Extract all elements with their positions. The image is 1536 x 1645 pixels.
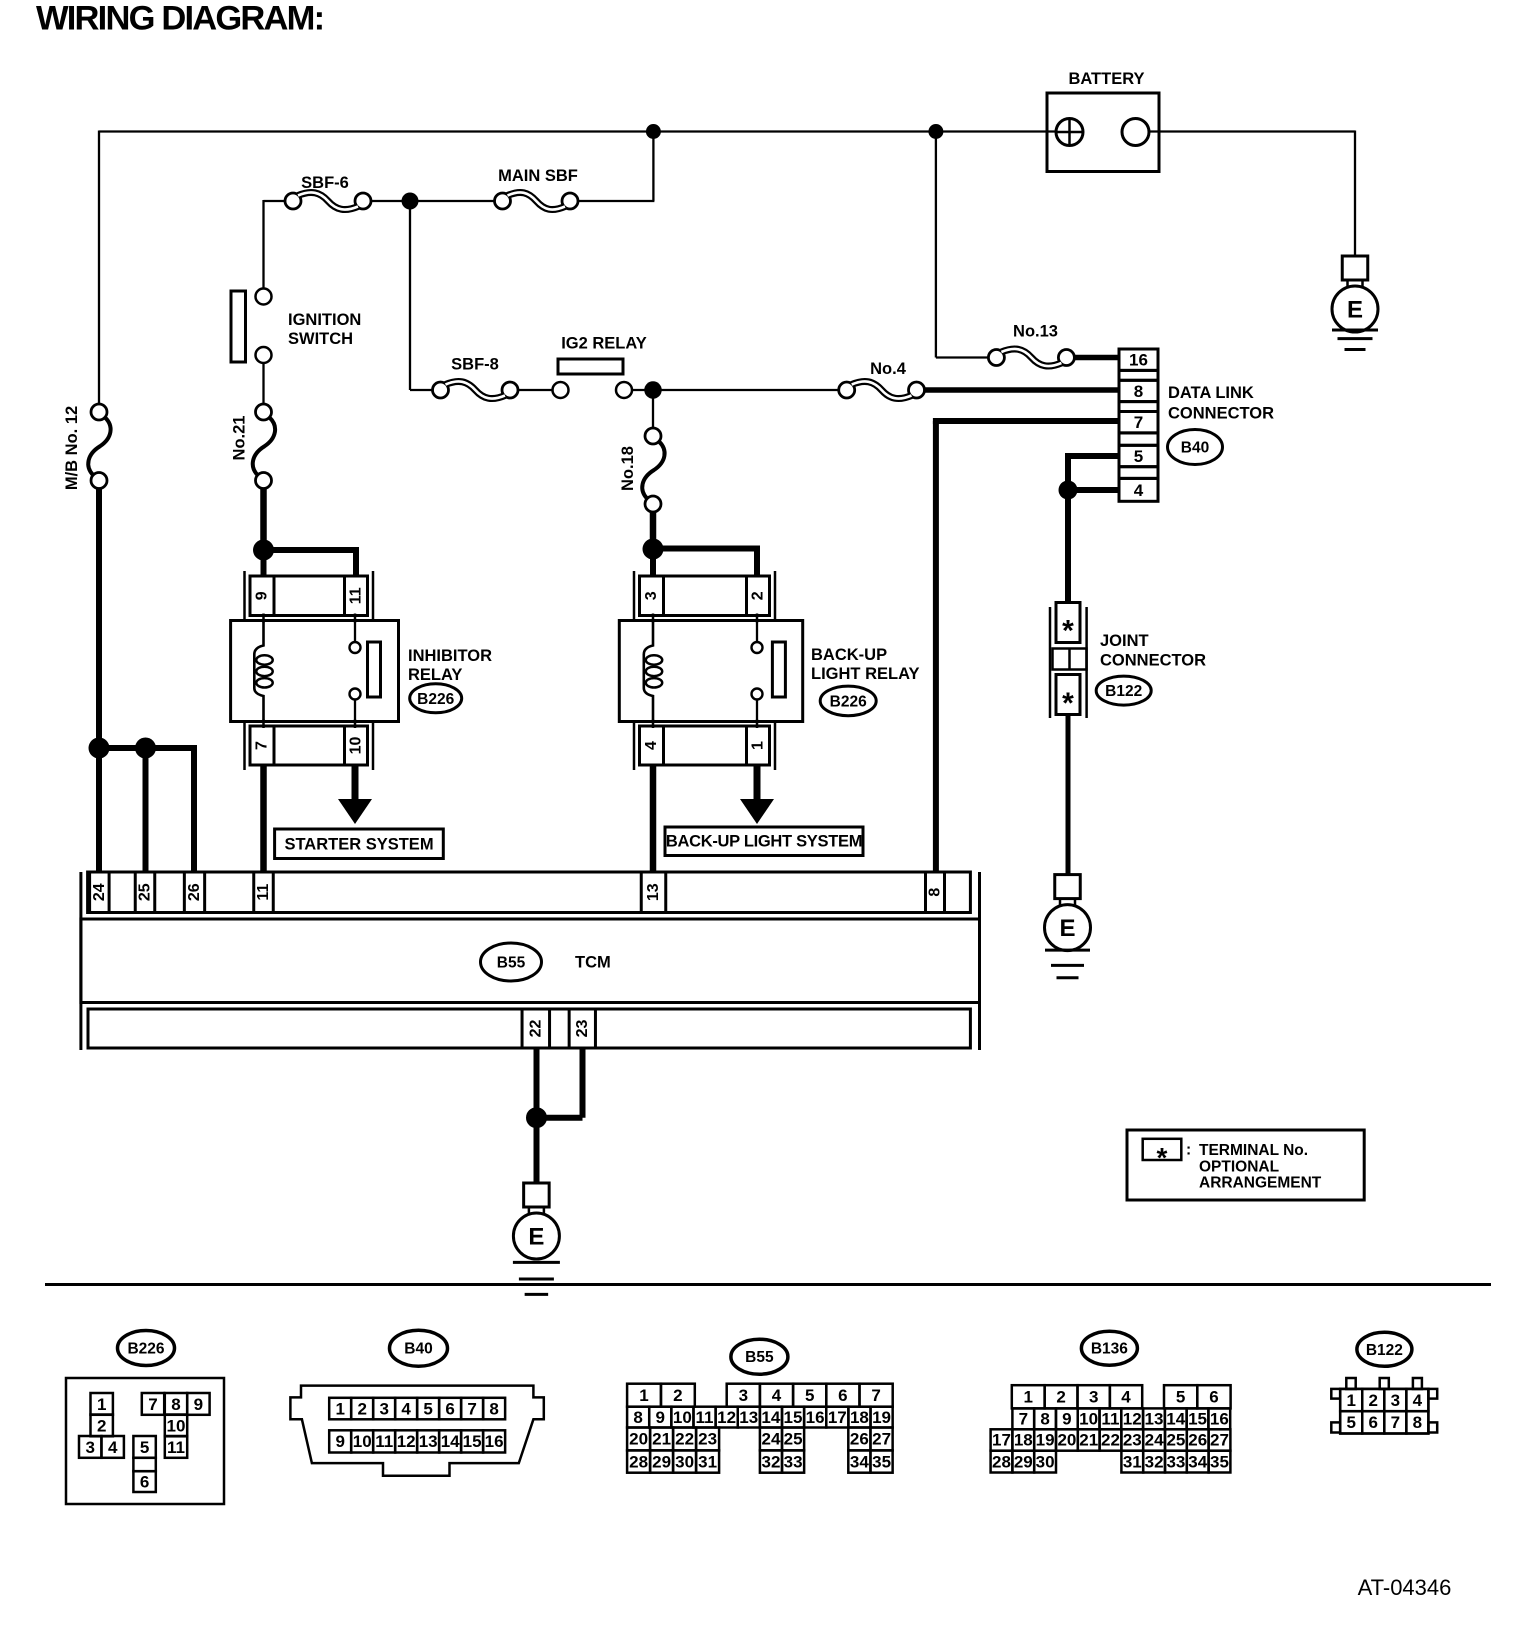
svg-text:SBF-6: SBF-6: [301, 174, 349, 192]
B55 view pin 1: [627, 1384, 661, 1407]
svg-text:35: 35: [872, 1452, 891, 1471]
svg-text:E: E: [1059, 915, 1075, 942]
svg-text:1: 1: [335, 1399, 344, 1418]
B226 view pin 4: [102, 1436, 124, 1458]
svg-text:MAIN SBF: MAIN SBF: [498, 167, 578, 185]
B226 view pin 9: [187, 1393, 209, 1415]
svg-text:13: 13: [645, 883, 662, 901]
svg-text:TERMINAL No.: TERMINAL No.: [1199, 1142, 1308, 1159]
relay contact bar: [368, 642, 381, 697]
svg-text:28: 28: [992, 1452, 1011, 1471]
wire IG2 junction to No.4: [653, 389, 839, 391]
svg-text:30: 30: [675, 1452, 694, 1471]
svg-text:INHIBITOR: INHIBITOR: [408, 647, 492, 665]
svg-text:14: 14: [761, 1408, 780, 1427]
B40 view pin 15: [461, 1430, 483, 1452]
B136 view pin 33: [1165, 1451, 1187, 1473]
B55 view pin 18: [848, 1407, 870, 1428]
svg-text:1: 1: [750, 741, 767, 750]
B55 view pin 11: [693, 1407, 715, 1428]
svg-text:11: 11: [375, 1432, 393, 1451]
ignition switch: [256, 289, 272, 305]
B40 view pin 4: [395, 1398, 417, 1420]
svg-text:32: 32: [1145, 1452, 1164, 1471]
svg-text:10: 10: [167, 1416, 186, 1435]
svg-text:SBF-8: SBF-8: [451, 356, 499, 374]
B226 view pin 6: [133, 1471, 155, 1492]
svg-text:1: 1: [1023, 1388, 1032, 1407]
TCM pin 26: [184, 872, 204, 913]
B226 view pin 11: [165, 1436, 187, 1458]
B40 view pin 1: [329, 1398, 351, 1420]
node junction SBF-6 / SBF-8: [402, 193, 419, 210]
connector ref B40: [1168, 430, 1223, 465]
TCM pin 11: [254, 872, 274, 913]
B136 view pin 29: [1012, 1451, 1034, 1473]
svg-text:7: 7: [148, 1395, 157, 1414]
B136 view pin 19: [1034, 1429, 1056, 1450]
wire No.4 to data link connector pin 8: [925, 387, 1120, 393]
node junction inhibitor coil feed: [253, 540, 274, 561]
relay body BACK-UP: [619, 621, 802, 722]
svg-text:16: 16: [485, 1432, 504, 1451]
svg-text:3: 3: [643, 591, 660, 600]
svg-text:11: 11: [348, 587, 365, 604]
svg-text:E: E: [528, 1224, 544, 1251]
B40 view pin 13: [417, 1430, 439, 1452]
B136 view pin 7: [1012, 1408, 1034, 1429]
wire stubs connector to body: [262, 614, 265, 623]
relay body INHIBITOR: [231, 621, 399, 722]
B40 view pin 6: [439, 1398, 461, 1420]
svg-text:No.13: No.13: [1013, 323, 1058, 341]
wire battery negative to ground: [1149, 130, 1355, 132]
svg-text:8: 8: [1413, 1413, 1422, 1432]
relay coil: [644, 621, 653, 722]
svg-text:19: 19: [872, 1408, 891, 1427]
wire IG2 junction drop to No.18: [652, 390, 654, 428]
B136 view pin 16: [1208, 1408, 1230, 1429]
B136 view pin 1: [1012, 1385, 1045, 1408]
B136 view pin 2: [1045, 1385, 1078, 1408]
svg-text:5: 5: [140, 1438, 149, 1457]
svg-text:13: 13: [739, 1408, 758, 1427]
svg-text:6: 6: [445, 1399, 454, 1418]
wire DLC pin 7 to TCM pin 8: [933, 418, 1119, 424]
B136 view pin 31: [1121, 1451, 1143, 1473]
svg-text:10: 10: [348, 737, 365, 755]
B55 view pin 17: [826, 1407, 848, 1428]
svg-text:4: 4: [401, 1399, 411, 1418]
fuse M/B No.12: [91, 404, 107, 420]
TCM pin 8: [926, 872, 945, 913]
node junction pin24 branch: [89, 738, 110, 759]
svg-text:6: 6: [140, 1473, 149, 1492]
B55 view pin 10: [671, 1407, 693, 1428]
svg-text:IG2 RELAY: IG2 RELAY: [561, 335, 647, 353]
B55 view pin 4: [760, 1384, 793, 1407]
TCM pin 22: [522, 1009, 550, 1048]
wire DLC pin 5 branch: [1065, 453, 1119, 459]
B136 view pin 13: [1143, 1408, 1165, 1429]
B136 view pin 10: [1078, 1408, 1100, 1429]
TCM pin 25: [135, 872, 155, 913]
B55 view pin 6: [826, 1384, 859, 1407]
svg-text:No.18: No.18: [619, 446, 637, 491]
arrow back-up pin 1 to back-up light system: [754, 765, 761, 800]
B55 view pin 13: [738, 1407, 760, 1428]
svg-text:24: 24: [1145, 1431, 1164, 1450]
svg-text:3: 3: [85, 1438, 94, 1457]
svg-text:3: 3: [1391, 1391, 1400, 1410]
svg-text:B122: B122: [1366, 1342, 1403, 1359]
svg-text:B226: B226: [830, 693, 867, 710]
B226 view pin 2: [91, 1415, 113, 1437]
wire junction to inhibitor pin 9: [261, 550, 267, 577]
svg-text:25: 25: [1166, 1431, 1185, 1450]
B226 view pin 8: [165, 1393, 187, 1415]
svg-text:17: 17: [828, 1408, 847, 1427]
node junction pin25 branch: [135, 738, 156, 759]
svg-text:8: 8: [633, 1408, 642, 1427]
box STARTER SYSTEM: [275, 829, 444, 859]
wire junction to back-up pin 2: [653, 546, 760, 552]
svg-text:B122: B122: [1105, 683, 1142, 700]
B55 view pin 8: [627, 1407, 649, 1428]
B40 view pin 14: [439, 1430, 461, 1452]
node junction TCM ground: [526, 1107, 547, 1128]
svg-text:B226: B226: [127, 1341, 164, 1358]
node junction top bus to MAIN SBF: [646, 124, 661, 139]
B55 view pin 25: [782, 1428, 804, 1451]
B122 view pin 3: [1384, 1389, 1406, 1411]
svg-text::: :: [1186, 1142, 1191, 1159]
B226 view pin 10: [165, 1415, 187, 1437]
svg-text:11: 11: [1101, 1410, 1119, 1429]
svg-text:8: 8: [489, 1399, 498, 1418]
svg-text:25: 25: [784, 1430, 803, 1449]
ground E battery negative: [1342, 256, 1368, 280]
wire ignition switch to No.21: [262, 363, 264, 404]
svg-text:22: 22: [527, 1020, 544, 1038]
svg-text:No.21: No.21: [231, 416, 249, 461]
B136 view pin 6: [1197, 1385, 1230, 1408]
svg-text:*: *: [1062, 615, 1074, 648]
B122 view pin 1: [1340, 1389, 1362, 1411]
svg-text:5: 5: [423, 1399, 432, 1418]
svg-text:M/B No. 12: M/B No. 12: [63, 406, 81, 490]
B55 view pin 31: [696, 1450, 719, 1472]
B136 view pin 9: [1056, 1408, 1078, 1429]
B55 view pin 22: [673, 1428, 696, 1451]
svg-text:15: 15: [1188, 1410, 1207, 1429]
svg-text:JOINT: JOINT: [1100, 632, 1149, 650]
TCM pin 23: [569, 1009, 595, 1048]
svg-text:4: 4: [1413, 1391, 1423, 1410]
svg-text:8: 8: [1134, 382, 1143, 401]
wire junction to joint connector: [1065, 490, 1071, 603]
fuse MAIN SBF: [495, 193, 511, 209]
B226 view pin 1: [91, 1393, 113, 1415]
connector bottom pins 4 1: [640, 726, 770, 765]
relay contact bar: [772, 642, 785, 697]
wire joint connector to ground: [1066, 715, 1071, 876]
B55 view pin 29: [650, 1450, 673, 1472]
svg-text:2: 2: [750, 591, 767, 600]
svg-text:OPTIONAL: OPTIONAL: [1199, 1158, 1279, 1175]
wire drop junction to No.13 fuse: [935, 132, 937, 358]
B55 view pin 3: [727, 1384, 760, 1407]
wire junction to DLC pin 4: [1068, 487, 1119, 493]
wire TCM pin 22 to ground: [534, 1048, 540, 1184]
svg-text:9: 9: [1062, 1410, 1071, 1429]
svg-text:4: 4: [108, 1438, 118, 1457]
svg-text:B55: B55: [745, 1349, 774, 1366]
battery: [1047, 93, 1159, 172]
B55 view pin 14: [760, 1407, 782, 1428]
connector ref B226 inhibitor relay: [410, 684, 462, 713]
arrow inhibitor pin 10 to starter system: [352, 765, 359, 800]
B55 view pin 28: [627, 1450, 650, 1472]
wire junction to inhibitor pin 11: [264, 547, 360, 553]
wire SBF-6 stub left: [264, 200, 286, 202]
svg-text:16: 16: [1210, 1410, 1229, 1429]
svg-text:1: 1: [97, 1395, 106, 1414]
connector view B40: [390, 1330, 448, 1366]
wire No.18 to back-up light relay: [650, 512, 657, 549]
B55 view pin 2: [661, 1384, 695, 1407]
svg-text:33: 33: [784, 1452, 803, 1471]
wire branch down to TCM pin 26: [191, 745, 197, 873]
wire No.21 to inhibitor relay: [260, 489, 267, 551]
svg-text:26: 26: [186, 883, 203, 901]
B55 view pin 30: [673, 1450, 696, 1472]
svg-text:31: 31: [698, 1452, 717, 1471]
TCM pin 13: [641, 872, 666, 913]
svg-text:13: 13: [419, 1432, 438, 1451]
svg-text:2: 2: [1056, 1388, 1065, 1407]
B40 view pin 10: [351, 1430, 373, 1452]
connector ref B122: [1096, 676, 1151, 705]
svg-text:33: 33: [1166, 1452, 1185, 1471]
B136 view pin 22: [1100, 1429, 1122, 1450]
svg-text:ARRANGEMENT: ARRANGEMENT: [1199, 1175, 1322, 1192]
B55 view pin 9: [649, 1407, 671, 1428]
B55 view pin 23: [696, 1428, 719, 1451]
wire branch down to TCM pin 25: [143, 748, 149, 873]
svg-text:16: 16: [1129, 351, 1148, 370]
svg-text:B40: B40: [1181, 440, 1209, 457]
connector bottom pins 7 10: [250, 726, 368, 765]
fuse No.4: [839, 382, 855, 398]
B55 view pin 21: [650, 1428, 673, 1451]
svg-text:16: 16: [806, 1408, 825, 1427]
svg-text:26: 26: [1188, 1431, 1207, 1450]
svg-text:*: *: [1157, 1142, 1168, 1173]
B55 view pin 26: [848, 1428, 870, 1451]
connector JOINT CONNECTOR B122: [1049, 607, 1052, 718]
svg-text:IGNITION: IGNITION: [288, 311, 361, 329]
B136 view pin 15: [1187, 1408, 1209, 1429]
B55 view pin 34: [848, 1450, 870, 1472]
wire stubs connector to body: [652, 614, 655, 623]
legend terminal optional arrangement: [1127, 1130, 1364, 1200]
svg-text:WIRING DIAGRAM:: WIRING DIAGRAM:: [36, 0, 323, 37]
wire No.13 to data link connector pin 16: [1074, 355, 1119, 361]
svg-text:12: 12: [1123, 1410, 1142, 1429]
svg-text:1: 1: [639, 1386, 648, 1405]
svg-text:4: 4: [772, 1386, 782, 1405]
B136 view pin 4: [1110, 1385, 1142, 1408]
svg-text:8: 8: [927, 888, 944, 897]
svg-text:2: 2: [357, 1399, 366, 1418]
B136 view pin 18: [1012, 1429, 1034, 1450]
node junction DLC pin 4 / joint connector: [1059, 481, 1078, 500]
B136 view pin 25: [1165, 1429, 1187, 1450]
wire MAIN SBF to top bus: [578, 200, 654, 202]
svg-text:12: 12: [397, 1432, 416, 1451]
svg-text:LIGHT RELAY: LIGHT RELAY: [811, 665, 919, 683]
connector view B226: [118, 1331, 175, 1366]
B55 view pin 32: [760, 1450, 782, 1472]
B122 view pin 7: [1384, 1411, 1406, 1433]
B226 view pin 3: [79, 1436, 101, 1458]
svg-text:1: 1: [1346, 1391, 1355, 1410]
svg-text:30: 30: [1036, 1452, 1055, 1471]
connector view B55: [731, 1339, 788, 1374]
svg-text:10: 10: [353, 1432, 372, 1451]
B55 view pin 7: [860, 1384, 893, 1407]
connector view B136: [1081, 1331, 1137, 1365]
ground E TCM: [524, 1183, 550, 1207]
box BACK-UP LIGHT SYSTEM: [665, 827, 863, 856]
wire junction to MAIN SBF: [410, 200, 495, 202]
svg-text:BACK-UP: BACK-UP: [811, 646, 887, 664]
B136 view pin 3: [1078, 1385, 1110, 1408]
wire left drop to M/B No.12: [98, 131, 100, 405]
wire SBF-8 to IG2 relay: [518, 389, 553, 391]
wire drop junction to MAIN SBF: [652, 132, 654, 202]
svg-text:5: 5: [805, 1386, 814, 1405]
svg-text:7: 7: [871, 1386, 880, 1405]
B40 view pin 11: [373, 1430, 395, 1452]
B55 view pin 24: [760, 1428, 782, 1451]
svg-text:BATTERY: BATTERY: [1068, 70, 1144, 88]
svg-text:11: 11: [255, 884, 272, 901]
B40 view pin 8: [483, 1398, 505, 1420]
B136 view pin 5: [1164, 1385, 1197, 1408]
B40 view pin 5: [417, 1398, 439, 1420]
node junction back-up relay coil feed: [643, 539, 664, 560]
B136 view pin 34: [1187, 1451, 1209, 1473]
wire junction to back-up pin 3: [650, 549, 656, 577]
svg-text:6: 6: [1209, 1388, 1218, 1407]
svg-text:7: 7: [254, 741, 271, 750]
wire IG2 relay to junction: [632, 389, 650, 391]
B136 view pin 12: [1121, 1408, 1143, 1429]
svg-text:6: 6: [1369, 1413, 1378, 1432]
svg-text:32: 32: [762, 1452, 781, 1471]
B55 view pin 20: [627, 1428, 650, 1451]
svg-text:15: 15: [784, 1408, 803, 1427]
B122 view pin 2: [1362, 1389, 1384, 1411]
B122 view pin 8: [1406, 1411, 1428, 1433]
svg-text:B40: B40: [404, 1341, 432, 1358]
svg-text:CONNECTOR: CONNECTOR: [1100, 652, 1206, 670]
wire M/B No.12 to TCM pin 24: [96, 489, 102, 874]
svg-text:34: 34: [1188, 1452, 1207, 1471]
connector view B122: [1357, 1332, 1412, 1366]
wire branch bus to pins 25 26: [99, 745, 194, 751]
svg-text:11: 11: [167, 1438, 185, 1457]
svg-text:4: 4: [1121, 1388, 1131, 1407]
svg-text:31: 31: [1123, 1452, 1142, 1471]
svg-text:35: 35: [1210, 1452, 1229, 1471]
svg-text:5: 5: [1346, 1413, 1355, 1432]
svg-text:14: 14: [1166, 1410, 1185, 1429]
svg-text:29: 29: [652, 1452, 671, 1471]
B40 view pin 2: [351, 1398, 373, 1420]
svg-text:STARTER SYSTEM: STARTER SYSTEM: [284, 836, 433, 854]
ground E joint connector: [1055, 875, 1081, 899]
svg-text:13: 13: [1145, 1410, 1164, 1429]
svg-text:18: 18: [850, 1408, 869, 1427]
connector ref B226 back-up light relay: [820, 686, 876, 716]
svg-text:9: 9: [335, 1432, 344, 1451]
svg-text:15: 15: [463, 1432, 482, 1451]
B55 view pin 5: [793, 1384, 826, 1407]
B136 view pin 35: [1209, 1451, 1231, 1473]
B40 view pin 16: [483, 1430, 505, 1452]
svg-text:29: 29: [1014, 1452, 1033, 1471]
svg-text:7: 7: [1134, 413, 1143, 432]
svg-text:22: 22: [675, 1430, 694, 1449]
B136 view pin 14: [1165, 1408, 1187, 1429]
svg-text:4: 4: [1134, 481, 1144, 500]
B122 view side tabs: [1331, 1389, 1340, 1399]
svg-text:7: 7: [467, 1399, 476, 1418]
svg-text:3: 3: [1089, 1388, 1098, 1407]
wire SBF-6 junction drop to SBF-8: [409, 201, 411, 390]
connector ref B55: [481, 943, 542, 981]
svg-text:B226: B226: [417, 691, 454, 708]
svg-text:19: 19: [1036, 1431, 1055, 1450]
svg-text:B136: B136: [1091, 1341, 1128, 1358]
fuse No.18: [645, 428, 661, 444]
svg-text:2: 2: [97, 1416, 106, 1435]
svg-text:5: 5: [1134, 447, 1143, 466]
svg-text:7: 7: [1019, 1410, 1028, 1429]
svg-text:9: 9: [194, 1395, 203, 1414]
connector top pins 9 11 of INHIBITOR relay: [250, 576, 368, 616]
svg-text:6: 6: [838, 1386, 847, 1405]
svg-text:25: 25: [137, 883, 154, 901]
relay contact: [354, 621, 356, 642]
B55 view pin 19: [871, 1407, 893, 1428]
wire top bus to No.13: [936, 356, 989, 358]
svg-text:26: 26: [850, 1430, 869, 1449]
B226 view blank cell: [133, 1458, 155, 1471]
relay IG2 RELAY: [558, 359, 623, 374]
svg-text:8: 8: [171, 1395, 180, 1414]
svg-text:BACK-UP LIGHT SYSTEM: BACK-UP LIGHT SYSTEM: [666, 833, 862, 851]
fuse No.21: [256, 404, 272, 420]
B55 view pin 33: [782, 1450, 804, 1472]
fuse No.13: [988, 350, 1004, 366]
svg-text:28: 28: [629, 1452, 648, 1471]
svg-text:3: 3: [739, 1386, 748, 1405]
svg-text:AT-04346: AT-04346: [1358, 1575, 1452, 1600]
